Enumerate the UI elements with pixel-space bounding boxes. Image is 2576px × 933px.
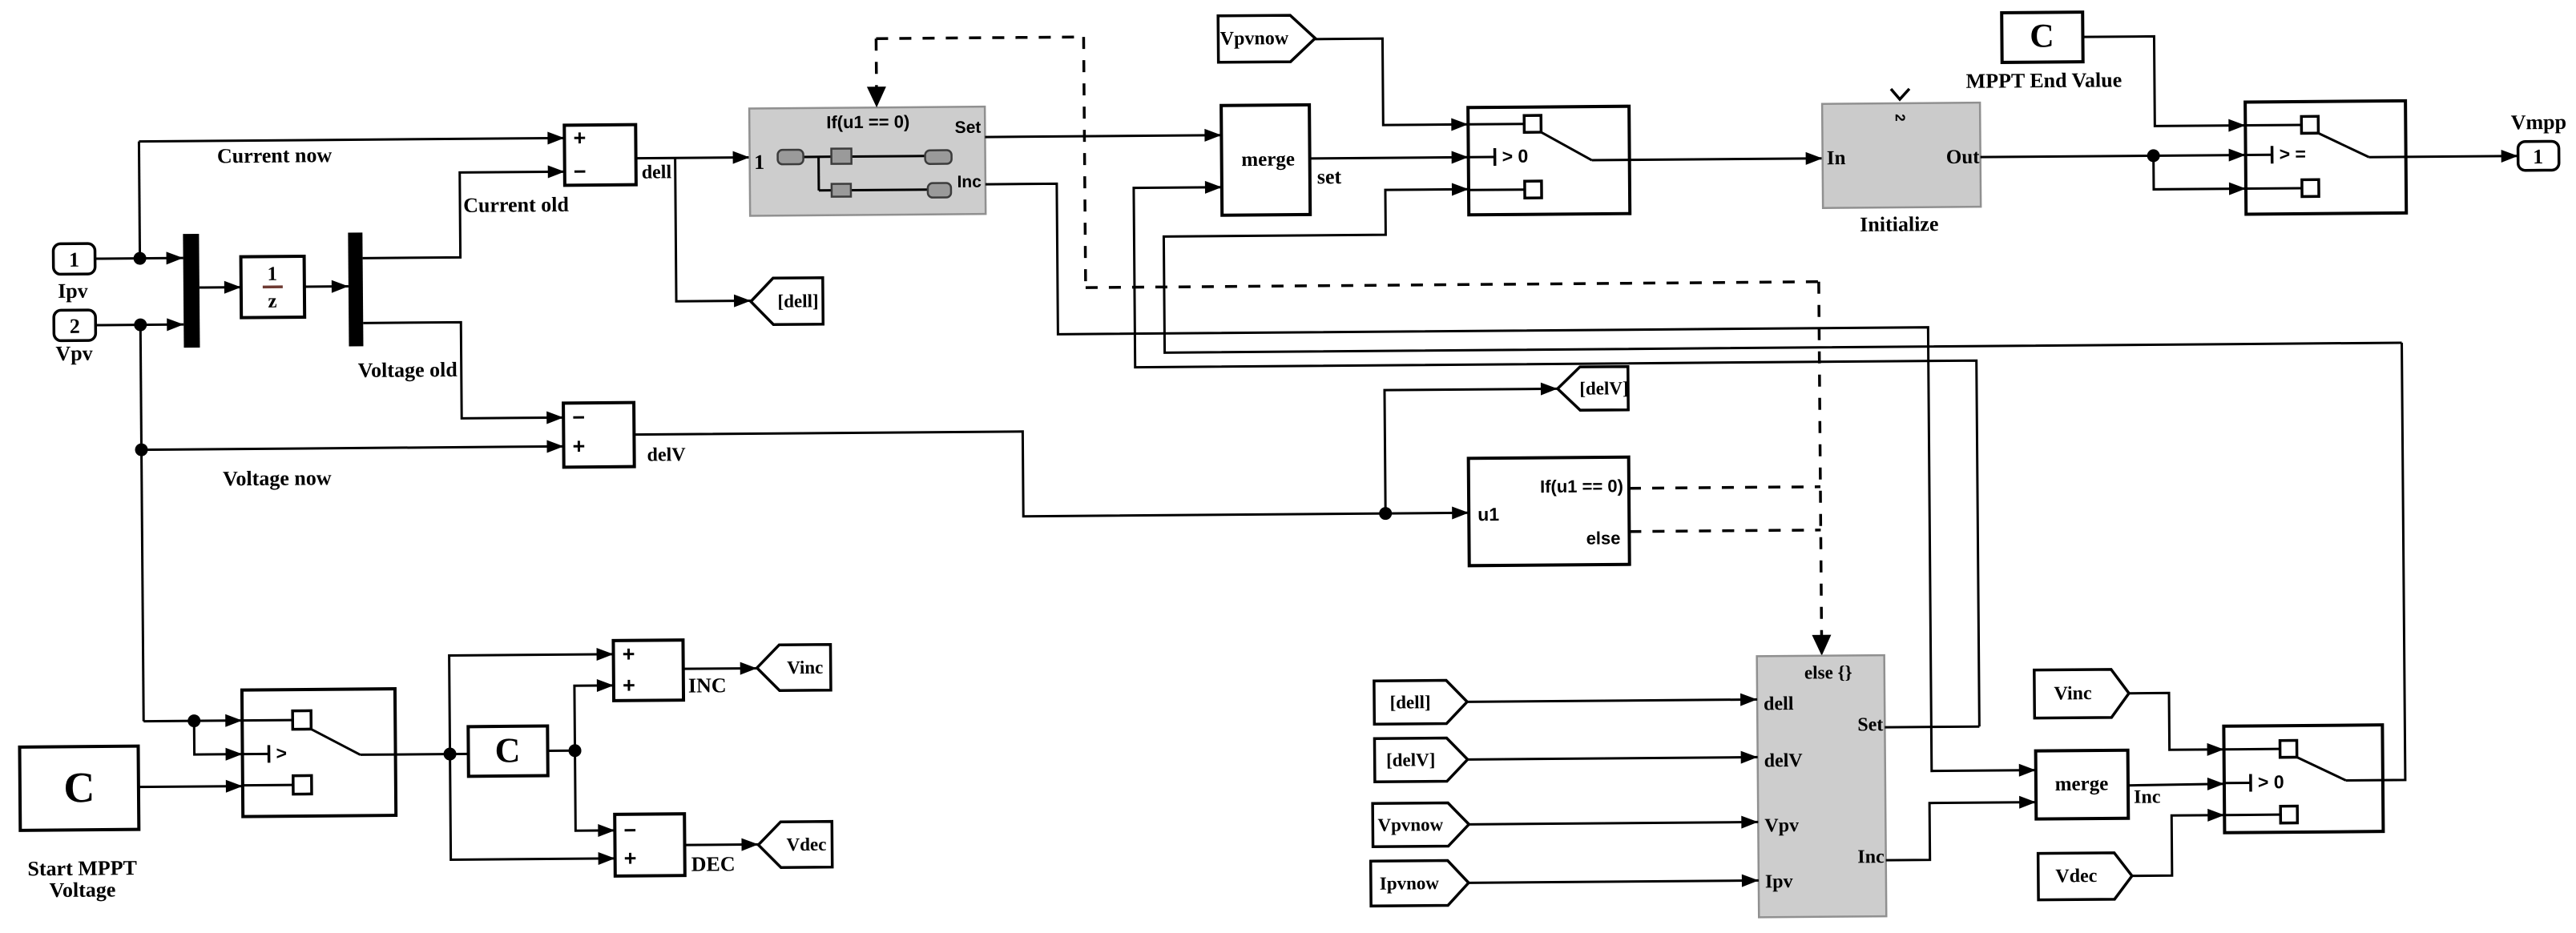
svg-text:>: > <box>276 742 287 763</box>
label Current now <box>217 143 333 167</box>
wire Current old <box>362 165 566 258</box>
svg-text:> 0: > 0 <box>1502 146 1529 167</box>
svg-text:Voltage old: Voltage old <box>358 358 458 382</box>
node G (sw3 out branch) <box>444 747 457 760</box>
label Start MPPT Voltage <box>27 856 137 902</box>
demux D1 <box>348 232 363 346</box>
wire switch3 out <box>396 753 469 756</box>
svg-text:Vpvnow: Vpvnow <box>1220 28 1289 50</box>
wire switch4 to outport <box>2406 150 2518 163</box>
wire sum4 to Vdec <box>684 838 758 851</box>
label set <box>1317 165 1342 188</box>
wire inport2 to mux <box>95 318 183 332</box>
svg-text:Out: Out <box>1946 147 1981 168</box>
svg-text:Set: Set <box>1857 714 1883 735</box>
svg-text:−: − <box>572 405 585 429</box>
svg-text:Vdec: Vdec <box>786 834 826 855</box>
svg-text:Ipv: Ipv <box>58 279 88 303</box>
svg-text:1: 1 <box>267 263 277 285</box>
wire C3 to switch3 in3 <box>139 780 243 794</box>
from tag [delV] 2 <box>1374 738 1467 782</box>
label DEC <box>691 852 736 875</box>
wire C2 up to sum3 in2 <box>574 679 615 750</box>
svg-text:1: 1 <box>69 248 79 271</box>
wire Voltage old <box>363 321 563 425</box>
dashed If2 else stub <box>1629 530 1820 532</box>
svg-text:Vpv: Vpv <box>1764 815 1799 836</box>
wire Vpvnow to switch1 <box>1315 38 1468 132</box>
svg-text:Current old: Current old <box>463 193 569 217</box>
svg-text:> =: > = <box>2280 143 2306 164</box>
action subsystem else {} <box>1757 655 1887 917</box>
svg-text:−: − <box>574 159 587 183</box>
switch SW3 (|>) <box>242 689 396 817</box>
wire branch up to sum3 in1 <box>449 648 615 754</box>
dashed feedback top horizontal <box>876 37 1083 38</box>
node F (switch3 ctrl branch) <box>187 714 200 727</box>
svg-text:+: + <box>623 642 635 666</box>
wire merge2 to switch2 <box>2128 778 2224 791</box>
svg-text:If(u1 == 0): If(u1 == 0) <box>1540 476 1623 497</box>
if action subsystem U1 If(u1==0) <box>749 107 986 215</box>
wire Ipvnow to else <box>1469 874 1759 889</box>
svg-text:Vinc: Vinc <box>2054 683 2092 704</box>
switch SW1 (|> 0) <box>1468 107 1630 215</box>
label Initialize <box>1860 212 1938 236</box>
dashed feedback horizontal y370 <box>1086 282 1819 288</box>
svg-text:Initialize: Initialize <box>1860 212 1938 236</box>
svg-text:[delV]: [delV] <box>1386 750 1436 770</box>
svg-text:Vpvnow: Vpvnow <box>1377 814 1443 835</box>
sum S4 (DEC) <box>615 814 685 876</box>
wire C1 to switch4 in1 <box>2082 36 2245 134</box>
from tag Ipvnow <box>1371 860 1469 906</box>
wire line C else-Set to merge1 in2 <box>1134 175 1979 733</box>
svg-text:dell: dell <box>1764 694 1794 714</box>
wire branch to goto dell <box>675 157 751 308</box>
svg-text:Ipv: Ipv <box>1765 871 1793 892</box>
label Inc (merge2) <box>2134 786 2161 807</box>
svg-text:delV: delV <box>647 444 686 465</box>
dashed action vertical x2267 <box>1809 282 1832 656</box>
svg-text:else: else <box>1586 528 1621 548</box>
svg-text:z: z <box>268 291 276 312</box>
wire else Set to line C <box>1885 726 1979 729</box>
goto tag Vdec <box>758 822 832 868</box>
goto tag Vinc <box>756 645 830 691</box>
label Ipv <box>58 279 88 303</box>
dashed If2 out1 stub <box>1629 487 1820 489</box>
svg-text:Voltage now: Voltage now <box>223 466 332 490</box>
wire delV to If2 input <box>634 428 1469 525</box>
wire Initialize Out <box>1981 149 2246 164</box>
dashed action wire into If1 <box>866 38 886 107</box>
outport 1 (Vmpp) <box>2518 141 2559 170</box>
merge block M2 <box>2036 750 2129 819</box>
svg-text:C: C <box>494 730 520 770</box>
wire mux to unit delay <box>200 281 241 294</box>
label MPPT End Value <box>1965 68 2122 93</box>
wire Vpvnow2 to else <box>1469 815 1758 830</box>
wire Current now to sum1 <box>139 131 564 147</box>
svg-text:Vinc: Vinc <box>787 658 823 678</box>
svg-text:u1: u1 <box>1477 504 1499 525</box>
svg-text:[delV]: [delV] <box>1579 378 1629 398</box>
svg-text:Inc: Inc <box>2134 786 2161 807</box>
constant C3 (Start MPPT Voltage) <box>19 746 139 830</box>
wire If1 Set to merge1 <box>985 129 1221 143</box>
subsystem Initialize <box>1822 88 1981 208</box>
switch SW4 (|> =) <box>2245 101 2406 215</box>
constant C2 <box>468 726 547 777</box>
from tag Vinc 2 <box>2034 670 2129 718</box>
node D (delV branch) <box>1379 507 1392 520</box>
svg-text:Inc: Inc <box>1857 847 1885 867</box>
node A (Ipv branch) <box>134 252 147 265</box>
svg-text:1: 1 <box>2533 145 2543 168</box>
svg-text:−: − <box>623 818 636 843</box>
svg-text:2: 2 <box>1893 114 1908 122</box>
wire If1 Inc (line A) <box>986 176 2036 785</box>
node C (voltage-now branch) <box>135 444 147 456</box>
svg-text:Vmpp: Vmpp <box>2511 111 2567 135</box>
wire Vdec to switch2 <box>2131 809 2225 876</box>
label Voltage now <box>223 466 332 490</box>
svg-text:Start MPPT: Start MPPT <box>27 856 137 880</box>
dashed feedback vertical x1352 <box>1083 37 1086 288</box>
wire switch2 out up (line B start) <box>2380 343 2405 780</box>
svg-text:Vpv: Vpv <box>55 342 92 365</box>
wire inport1 to mux <box>95 251 183 265</box>
svg-text:else {}: else {} <box>1804 662 1852 682</box>
wire C2 out <box>548 750 575 752</box>
svg-text:> 0: > 0 <box>2258 771 2284 792</box>
svg-text:+: + <box>624 847 637 871</box>
inport 1 (Ipv) <box>53 243 95 274</box>
svg-text:1: 1 <box>754 151 764 174</box>
wire [dell] to else <box>1467 693 1757 708</box>
svg-text:Current now: Current now <box>217 143 333 167</box>
node B (Vpv branch) <box>134 319 147 332</box>
svg-text:C: C <box>63 763 95 811</box>
wire Vpv to switch3 in1 <box>143 714 242 728</box>
label Current old <box>463 193 569 217</box>
svg-text:MPPT End Value: MPPT End Value <box>1965 68 2122 93</box>
svg-text:DEC: DEC <box>691 852 736 875</box>
merge block M1 <box>1221 105 1310 215</box>
wire Ipv up to current-now <box>139 142 139 259</box>
if block U2 (u1) <box>1469 457 1630 566</box>
svg-text:INC: INC <box>688 674 727 697</box>
wire switch1 to Initialize <box>1630 152 1823 167</box>
label delV <box>647 444 686 465</box>
svg-text:Set: Set <box>955 119 982 137</box>
wire sum3 to Vinc <box>683 662 757 675</box>
unit delay 1/z <box>241 256 305 318</box>
svg-text:If(u1 == 0): If(u1 == 0) <box>826 111 909 132</box>
wire Vinc to switch2 <box>2129 693 2224 757</box>
node E (Out branch) <box>2147 149 2160 162</box>
svg-text:[dell]: [dell] <box>1389 692 1430 712</box>
sum S3 (INC) <box>613 640 683 701</box>
from tag Vpvnow (top) <box>1218 15 1315 62</box>
svg-text:merge: merge <box>1241 149 1295 171</box>
svg-text:2: 2 <box>70 315 80 338</box>
svg-text:delV: delV <box>1764 750 1804 771</box>
from tag Vdec 2 <box>2038 853 2132 900</box>
wire Voltage now to sum2 <box>141 440 563 456</box>
svg-text:+: + <box>572 434 585 458</box>
label dell <box>642 162 672 183</box>
label Voltage old <box>358 358 458 382</box>
sum S1 (dell) <box>564 125 636 186</box>
node H (C2 out branch) <box>568 744 581 757</box>
inport 2 (Vpv) <box>54 310 95 340</box>
svg-text:Vdec: Vdec <box>2055 866 2098 887</box>
from tag [dell] 2 <box>1374 680 1467 724</box>
mux M1 <box>183 234 200 348</box>
sum S2 (delV) <box>563 403 635 468</box>
goto tag [delV] <box>1558 367 1629 411</box>
from tag Vpvnow 2 <box>1373 802 1469 847</box>
wire branch down to sum4 in2 <box>450 753 615 867</box>
label Vpv <box>55 342 92 365</box>
svg-text:Voltage: Voltage <box>49 878 115 902</box>
wire unit delay to demux <box>304 280 349 293</box>
wire delV up to goto delV <box>1385 382 1558 513</box>
constant C1 (MPPT End Value) <box>2002 12 2082 62</box>
svg-text:merge: merge <box>2055 773 2109 795</box>
wire Out branch to switch4 in3 <box>2154 155 2246 196</box>
wire else Inc to merge2 <box>1885 796 2037 861</box>
goto tag [dell] <box>751 278 823 325</box>
wire line B from switch2 out to switch1 in3 <box>1163 175 2402 352</box>
wire C2 down to sum4 in1 <box>575 750 615 837</box>
wire branch to switch3 ctrl <box>194 721 242 761</box>
svg-text:[dell]: [dell] <box>777 291 818 311</box>
wire [delV] to else <box>1468 750 1758 766</box>
svg-text:+: + <box>623 674 635 698</box>
svg-text:In: In <box>1827 147 1846 169</box>
wire merge1 to switch1 <box>1310 151 1469 165</box>
svg-text:set: set <box>1317 165 1342 188</box>
svg-text:+: + <box>573 126 586 150</box>
svg-text:C: C <box>2030 18 2054 54</box>
wire Vpv down to switch3 <box>142 450 144 722</box>
label INC <box>688 674 727 697</box>
svg-text:Ipvnow: Ipvnow <box>1380 873 1440 894</box>
switch SW2 (|> 0) <box>2223 725 2383 833</box>
wire Vpv down to voltage-now <box>140 325 141 450</box>
label Vmpp <box>2511 111 2567 135</box>
svg-text:dell: dell <box>642 162 672 183</box>
svg-text:Inc: Inc <box>957 173 982 191</box>
wire sum1 to If block <box>636 151 750 164</box>
